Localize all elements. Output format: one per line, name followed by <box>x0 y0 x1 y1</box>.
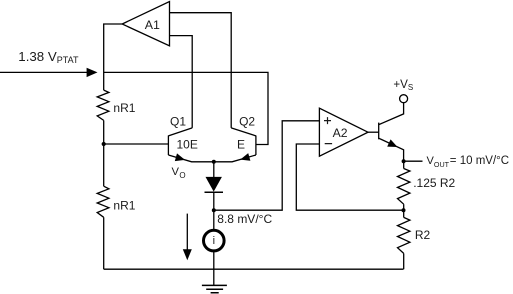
wire A2 output to Q3 base <box>368 131 379 133</box>
svg-text:.125 R2: .125 R2 <box>413 176 455 190</box>
svg-text:V: V <box>172 166 180 178</box>
svg-text:S: S <box>408 83 413 92</box>
wire .125R2 to R2 <box>403 204 405 217</box>
node feedback junction <box>402 208 406 212</box>
resistor .125 R2 <box>398 169 410 205</box>
node Q1 base junction <box>102 142 106 146</box>
transistor Q2 <box>214 128 256 162</box>
svg-text:OUT: OUT <box>434 160 450 169</box>
svg-text:PTAT: PTAT <box>57 55 79 65</box>
wire left branch down to bottom rail <box>103 217 105 269</box>
svg-text:nR1: nR1 <box>113 101 135 115</box>
wire bottom rail <box>104 268 404 270</box>
node common emitter junction <box>212 160 216 164</box>
wire Q1 base <box>104 143 169 145</box>
wire A1 bottom input to Q1 collector <box>170 36 193 128</box>
node 8.8mV junction <box>212 208 216 212</box>
op-amp A1 <box>122 2 169 46</box>
resistor nR1 (bottom) <box>97 186 109 217</box>
svg-text:+V: +V <box>393 78 408 91</box>
wire VOUT stub <box>404 160 423 162</box>
svg-text:i: i <box>213 235 215 247</box>
label +VS <box>393 78 413 92</box>
label V0 <box>172 166 186 180</box>
svg-text:1.38 V: 1.38 V <box>18 49 57 64</box>
wire between nR1 resistors <box>103 120 105 186</box>
svg-text:8.8 mV/°C: 8.8 mV/°C <box>217 212 272 226</box>
op-amp A2 <box>319 108 368 156</box>
wire main rail to Q2 base <box>104 72 268 144</box>
wire A1 output to rail/nR1 <box>104 24 123 90</box>
transistor Q3 <box>379 103 404 161</box>
resistor R2 <box>398 217 410 253</box>
svg-text:Q2: Q2 <box>239 114 255 128</box>
wire current source to ground <box>213 251 215 286</box>
label VOUT = 10 mV/degC <box>427 155 510 169</box>
svg-text:Q1: Q1 <box>170 114 186 128</box>
resistor nR1 (top) <box>97 90 109 120</box>
wire input line 1.38 VPTAT <box>0 71 87 73</box>
wire R2 to bottom rail <box>403 253 405 269</box>
label 1.38 VPTAT <box>18 49 79 65</box>
svg-text:A2: A2 <box>333 126 348 140</box>
svg-text:R2: R2 <box>415 228 431 242</box>
diode D1 <box>205 162 224 231</box>
svg-text:nR1: nR1 <box>113 199 135 213</box>
wire feedback node to A2 - input <box>296 144 403 210</box>
annotation current direction arrow <box>183 214 192 261</box>
transistor Q1 <box>168 128 213 162</box>
svg-text:O: O <box>179 171 185 180</box>
svg-text:= 10 mV/°C: = 10 mV/°C <box>450 155 509 167</box>
current source i <box>204 230 225 251</box>
svg-text:10E: 10E <box>177 138 198 152</box>
input arrowhead <box>87 68 98 77</box>
node VOUT junction <box>402 159 406 163</box>
wire VOUT node to .125R2 <box>403 161 405 168</box>
wire A1 top input to Q2 collector <box>170 13 232 128</box>
wire node to A2 + input <box>214 121 320 210</box>
svg-text:A1: A1 <box>145 18 160 32</box>
terminal +VS <box>400 95 408 103</box>
ground <box>202 285 227 292</box>
svg-text:E: E <box>237 138 245 152</box>
